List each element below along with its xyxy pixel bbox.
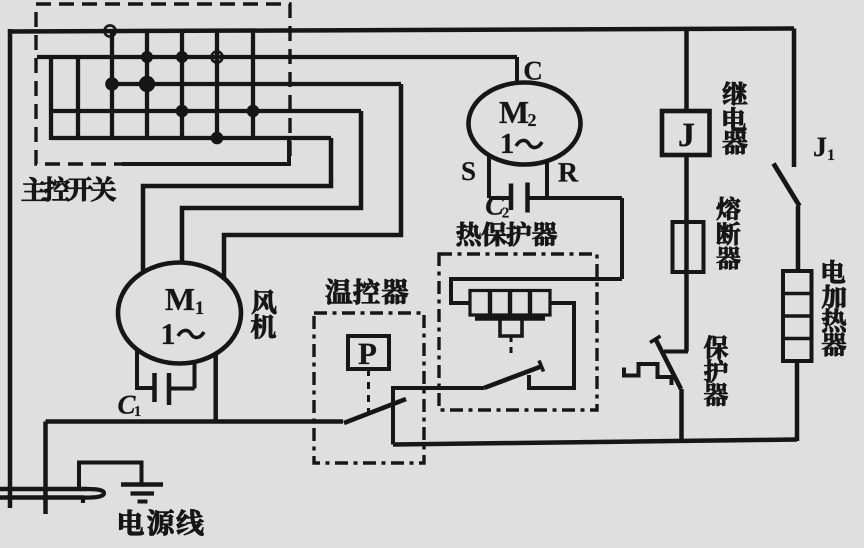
label C2 (486, 196, 504, 215)
wire switch line 2 (to M2 terminal C) (37, 55, 517, 59)
ground symbol (121, 482, 163, 487)
wire M1 common lead to neutral bus (213, 353, 218, 422)
label 主控开关 (main control switch) (22, 177, 116, 202)
heater divider (783, 314, 812, 318)
junction line5 col5 (211, 132, 224, 145)
wire C2 to R node (529, 196, 622, 200)
wire top bus / switch line 1 (8, 29, 794, 32)
tilde of 1~ in M2 (516, 140, 542, 147)
wire M2 R lead down (545, 161, 549, 198)
label 保护器 (protector) (704, 335, 728, 406)
electric heater element 电加热器 (783, 271, 812, 361)
label 1~ inside M1 (163, 324, 174, 344)
wire switch line 5 (51, 136, 331, 140)
label C terminal of M2 (525, 62, 541, 80)
bimetal divider (508, 291, 512, 316)
blade tip tick (539, 361, 544, 372)
power cord loop end (83, 489, 104, 503)
label J (680, 124, 695, 147)
bimetal actuator yoke (475, 316, 545, 320)
junction ring on line 1 col 2 (104, 25, 115, 36)
junction ring line2 col5 (211, 51, 222, 62)
wire line3 to M1 top-right tap (224, 84, 401, 280)
thermostat switch blade (344, 399, 406, 423)
fan motor M1 (118, 263, 241, 364)
power cord line 电源线 (0, 487, 87, 491)
wire ground conductor (79, 463, 142, 491)
wire bimetal to fixed contact (529, 303, 574, 388)
wire bus drop to power cord (43, 422, 48, 515)
wire switch line 4 (52, 109, 361, 113)
wire right bus down to switch J1 (792, 29, 797, 168)
wire line5 branch along box bottom (122, 138, 289, 164)
wire M1 start winding to C1 (193, 362, 197, 389)
protector switch blade (656, 340, 681, 389)
label J1 (814, 138, 826, 157)
junction line2 col4 (176, 51, 188, 63)
capacitor C1 (152, 373, 157, 402)
label 风机 (fan) (251, 290, 276, 339)
wire M2 S lead down (487, 155, 491, 198)
label M1 inside motor (165, 289, 194, 310)
lower bus wire to heater branch (393, 440, 797, 445)
junction line4 col6 (247, 105, 260, 118)
heater divider (783, 292, 812, 296)
tilde of 1~ in M1 (178, 330, 204, 337)
wire switch column 1 (76, 57, 80, 138)
junction line4 col4 (176, 105, 189, 118)
protector fixed contact step (624, 364, 672, 385)
label 1~ inside M2 (502, 134, 513, 153)
wire heater to lower bus (795, 361, 800, 441)
capacitor C2 (509, 184, 514, 211)
wire switch column 3 (145, 31, 149, 138)
motor M2 (469, 83, 581, 165)
bimetal element stack (470, 291, 550, 316)
thermostat dashed enclosure 温控器 (314, 313, 424, 463)
wire thermostat contact to thermal protector switch (393, 388, 484, 445)
label R terminal (558, 163, 578, 181)
thermostat sensor box P (348, 336, 389, 369)
bimetal divider (488, 291, 492, 316)
junction line3 col2 (105, 77, 119, 91)
dashed actuator link (367, 369, 370, 413)
heater divider (783, 337, 812, 341)
relay coil box J (662, 111, 710, 155)
protector top contact tick (664, 350, 688, 354)
wire C1 right plate to M1 (169, 387, 195, 391)
wire J1 to heater (796, 206, 801, 271)
label 温控器 (thermostat) (326, 279, 408, 305)
wire C1 left plate lead (135, 386, 154, 390)
wire switch column 6 (251, 31, 255, 138)
label 电加热器 (electric heater) (822, 260, 846, 356)
thermal protector dashed enclosure 热保护器 (439, 254, 597, 410)
blade top tick (650, 336, 661, 343)
wire relay to fuse to protector (684, 155, 689, 352)
junction line3 col3 (large) (139, 76, 155, 92)
wire bottom neutral bus (N) (46, 419, 344, 424)
label S terminal (462, 162, 474, 180)
switch J1 blade (774, 164, 800, 207)
wire top bus to relay J (684, 29, 689, 111)
label 热保护器 (thermal protector) (456, 222, 557, 247)
wire switch line 3 (112, 82, 401, 86)
wire S lead to C2 left plate (489, 196, 510, 200)
wire line4 to M1 top-middle tap (182, 111, 361, 264)
bimetal divider (528, 291, 532, 316)
dashed actuator link (510, 336, 513, 357)
wire left supply bus (L) (8, 29, 13, 508)
label 电源线 (power cord) (119, 509, 203, 535)
wire protector to lower bus (679, 389, 684, 441)
fuse 熔断器 (673, 222, 704, 272)
main control switch dashed enclosure (36, 4, 290, 164)
label M2 inside motor (499, 102, 528, 123)
label 熔断器 (fuse) (717, 197, 741, 270)
wire line5 to M1 top-left tap (143, 138, 331, 274)
label 继电器 (relay) (723, 81, 748, 154)
wire drop to M2 C terminal (515, 57, 519, 84)
thermal protector switch blade (484, 367, 541, 389)
wire R node down to thermal protector (620, 198, 624, 279)
wire jumper line2-line5 (49, 57, 53, 140)
wire into bimetal stack (451, 279, 622, 303)
label P (359, 344, 377, 364)
wire M1 lead to capacitor C1 left (135, 350, 139, 388)
wire switch column 4 (180, 31, 184, 138)
wire switch column 2 (110, 31, 114, 138)
label C1 (118, 396, 135, 414)
wire switch column 5 (215, 31, 219, 138)
junction line2 col3 (141, 51, 153, 63)
